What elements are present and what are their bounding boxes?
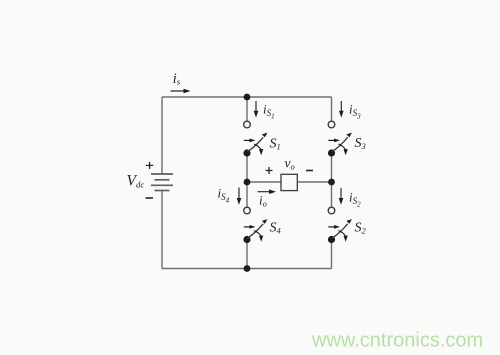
switch S4 [243, 207, 267, 243]
wire: right leg top segment (top bus to S3 top terminal) [331, 97, 333, 121]
output - sign [306, 170, 313, 172]
wire: middle leg top segment (top bus to S1 top terminal) [246, 97, 248, 121]
switch S2 [328, 207, 352, 243]
wire: middle leg lower segment (S4 bottom to bottom bus) [246, 240, 248, 269]
battery - terminal sign [146, 197, 154, 199]
wire: middle leg mid segment (S1 bottom to S4 top terminal) [246, 153, 248, 207]
wire: left leg lower (battery - down to bottom bus) [161, 191, 163, 269]
current is arrow [171, 89, 191, 94]
wire: right leg mid segment (S3 bottom to S2 top terminal) [331, 153, 333, 207]
wire: right leg lower segment (S2 bottom to bottom bus) [331, 240, 333, 269]
wire: left leg upper (top bus down to battery +) [161, 97, 163, 174]
node: top junction of middle leg [244, 94, 251, 101]
battery Vdc [151, 174, 173, 191]
wire: top bus from left leg to right leg [162, 96, 332, 98]
current iS2 arrow [339, 188, 344, 205]
wire: bottom bus [162, 268, 332, 270]
battery + terminal sign [146, 162, 153, 169]
current iS1 arrow [254, 101, 259, 118]
node A: middle leg / output junction [244, 179, 251, 186]
current io arrow [258, 189, 277, 194]
current iS3 arrow [339, 101, 344, 118]
switch S1 [243, 121, 267, 156]
node: bottom junction of middle leg [244, 265, 251, 272]
wire: output wire right (load box to node B) [297, 181, 331, 183]
wire: output wire left (node A to load box) [247, 181, 281, 183]
node B: right leg / output junction [328, 179, 335, 186]
svg-text:www.cntronics.com: www.cntronics.com [311, 330, 483, 352]
load box [281, 174, 297, 190]
current iS4 arrow [237, 188, 242, 205]
output + sign [266, 167, 273, 174]
switch S3 [328, 121, 352, 156]
